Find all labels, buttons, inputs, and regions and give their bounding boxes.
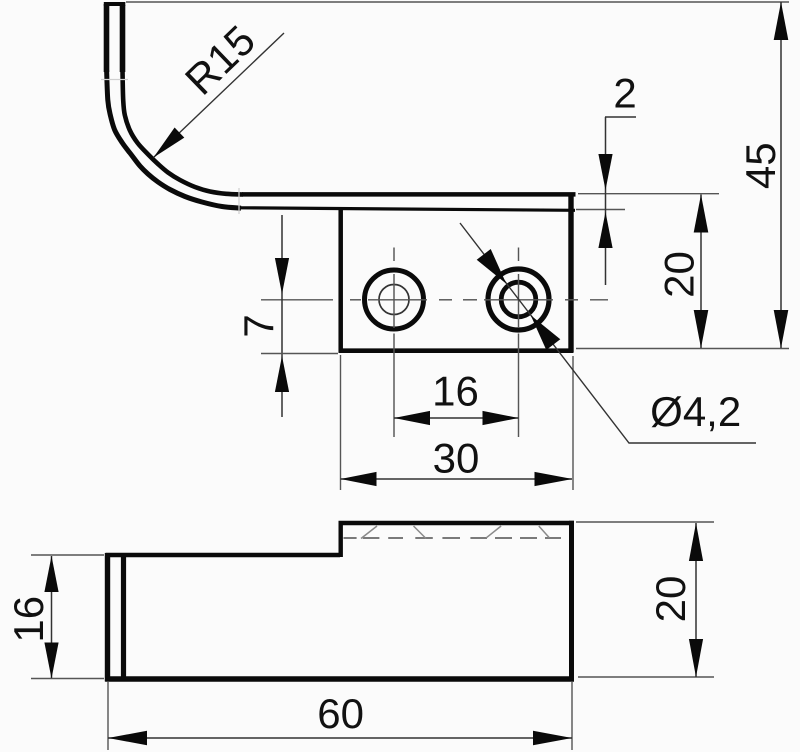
- bend zone mark 2 left diagonal: [486, 526, 501, 538]
- bottom view: left outer edge: [105, 553, 110, 682]
- svg-text:16: 16: [5, 596, 52, 643]
- dim 2: dimension line: [605, 117, 607, 285]
- dim 16 bottom view: bottom extension line: [31, 678, 104, 680]
- bend zone mark 1 left diagonal: [361, 526, 377, 539]
- dim 16 bottom view: dimension line: [51, 556, 53, 678]
- dim 60: right arrow: [533, 731, 572, 746]
- dim 2: shelf under label: [605, 116, 636, 118]
- dim 7: lower arrow: [275, 356, 289, 392]
- dim 20 top view: top extension line: [578, 193, 719, 195]
- dim 30: right extension line: [572, 356, 574, 490]
- bottom view: upper top edge: [339, 521, 575, 526]
- svg-text:Ø4,2: Ø4,2: [650, 388, 741, 435]
- svg-text:20: 20: [647, 576, 694, 623]
- dim 20 bottom view: bottom arrow: [689, 639, 703, 677]
- bend tangency tick on flat sheet: [238, 188, 240, 214]
- bottom view: step edge: [339, 521, 343, 557]
- dim 2: sheet bottom extension line: [576, 209, 625, 211]
- dim 30: dimension line: [341, 478, 573, 480]
- svg-text:45: 45: [737, 142, 784, 189]
- right hole vertical centerline: [518, 248, 520, 438]
- top view: outer bend curve R15: [107, 70, 241, 208]
- left hole vertical centerline: [393, 248, 395, 438]
- top view: block left edge: [338, 208, 343, 352]
- dim 16: right arrow: [483, 411, 519, 425]
- top view: block bottom edge: [339, 348, 574, 353]
- dim 45: dimension line: [780, 2, 782, 348]
- dim 60: dimension line: [108, 737, 572, 739]
- dim 16 bottom view: bottom arrow: [44, 643, 58, 679]
- right hole inner circle: [501, 282, 536, 317]
- bottom view: bend tangent line: [121, 553, 126, 679]
- R15 leader line: [154, 33, 285, 158]
- svg-text:16: 16: [432, 367, 479, 414]
- dim 16 bottom view: top extension line: [31, 554, 104, 556]
- bottom view: hidden dashed line: [344, 537, 562, 539]
- dim 30: left arrow: [341, 472, 377, 486]
- top view: sheet bottom surface line: [240, 208, 575, 211]
- svg-text:20: 20: [656, 251, 703, 298]
- dim 16 top view: dimension line: [394, 417, 519, 419]
- bottom view: right edge: [569, 521, 574, 682]
- right hole outer circle: [488, 269, 549, 330]
- R15 arrowhead: [154, 128, 185, 158]
- bend zone mark 2 right diagonal: [539, 526, 550, 538]
- dim 20 bottom view: top extension line: [576, 521, 714, 523]
- top view: top end cap of sheet: [104, 2, 126, 6]
- svg-text:30: 30: [433, 435, 480, 482]
- dim 45: top extension line: [126, 1, 789, 3]
- svg-text:7: 7: [235, 314, 282, 337]
- dim 20: bottom arrow: [694, 310, 709, 348]
- dim 2: lower arrow: [598, 212, 612, 248]
- left hole outer circle: [365, 270, 424, 329]
- bottom view: lower top edge: [106, 553, 341, 557]
- svg-text:60: 60: [317, 690, 364, 737]
- top view: outer surface vertical leg: [104, 4, 110, 72]
- left hole inner circle: [379, 285, 409, 315]
- dim 45: bottom arrow: [774, 310, 789, 348]
- dim 60: left arrow: [108, 731, 147, 746]
- dim 20 bottom view: dimension line: [695, 523, 697, 677]
- dim 16 bottom view: top arrow: [44, 556, 58, 592]
- dim 16: left arrow: [394, 411, 430, 425]
- leader lower arrow: [531, 315, 561, 350]
- top view: inner surface vertical leg: [120, 5, 126, 72]
- dim 30: right arrow: [535, 472, 573, 486]
- top view: block right edge: [568, 193, 573, 353]
- dim 45: bottom extension line: [576, 348, 789, 350]
- dim 20: top arrow: [694, 195, 709, 233]
- horizontal centerline through holes: [261, 299, 608, 301]
- dim 60: left extension line: [107, 682, 109, 750]
- bend tangency tick on legs: [101, 79, 128, 81]
- dim 60: right extension line: [571, 682, 573, 750]
- hole diameter leader line: [460, 223, 756, 443]
- dim 7: upper arrow: [275, 258, 289, 294]
- bend zone mark 1 right diagonal: [414, 526, 427, 539]
- dim 20: dimension line: [700, 195, 702, 349]
- dim 7: bottom extension line: [261, 353, 338, 355]
- dim 30: left extension line: [340, 355, 342, 490]
- dim 20 bottom view: top arrow: [689, 523, 703, 561]
- dim 45: top arrow: [774, 2, 789, 40]
- top view: inner bend curve: [123, 70, 244, 195]
- dim 7: dimension line: [281, 215, 283, 417]
- dim 2: upper arrow: [598, 154, 612, 190]
- top view: sheet top surface line: [242, 192, 576, 197]
- bottom view: bottom edge: [105, 676, 574, 681]
- dim 20 bottom view: bottom extension line: [578, 676, 714, 678]
- svg-text:2: 2: [613, 69, 636, 116]
- leader upper arrow: [477, 249, 507, 284]
